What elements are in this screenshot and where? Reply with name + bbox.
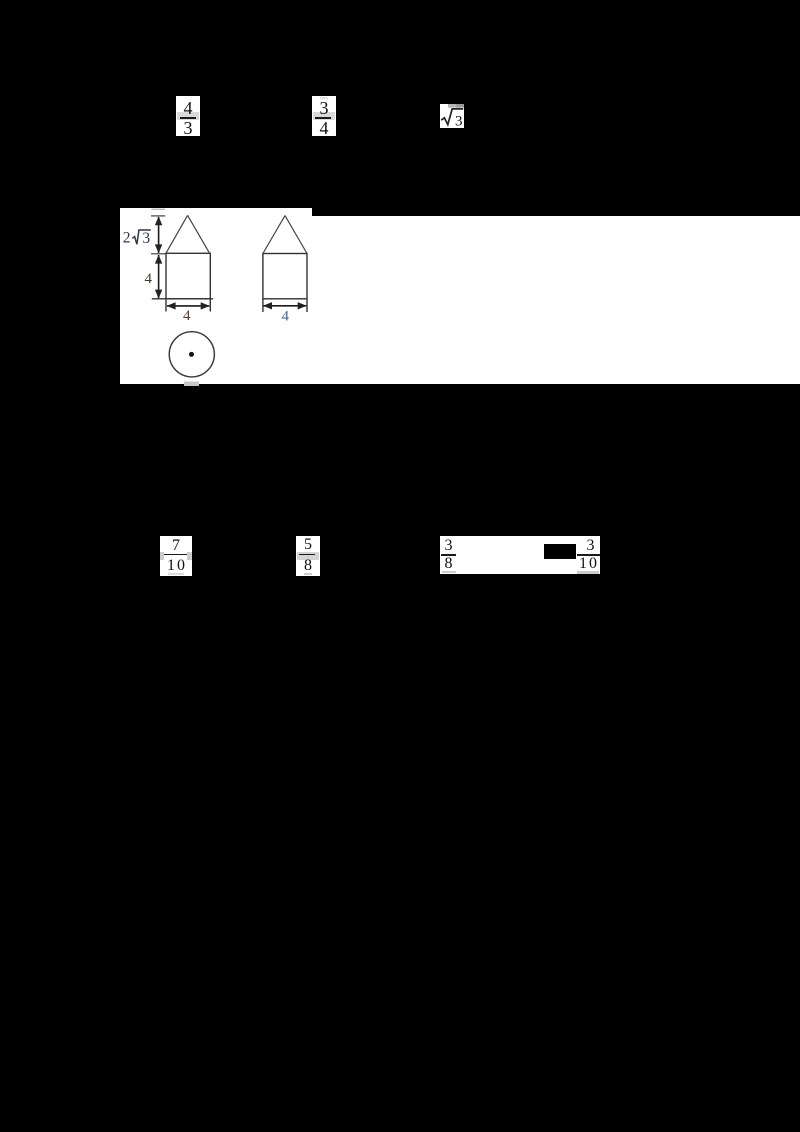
svg-text:4: 4 <box>183 308 191 324</box>
svg-text:2: 2 <box>123 230 131 247</box>
svg-text:3: 3 <box>142 230 150 247</box>
svg-text:4: 4 <box>282 308 290 324</box>
svg-text:4: 4 <box>145 271 153 287</box>
svg-text:3: 3 <box>455 113 463 128</box>
